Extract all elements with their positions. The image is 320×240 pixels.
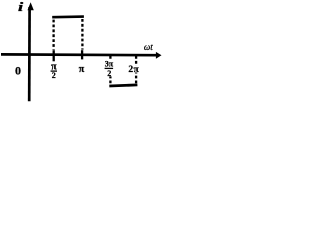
- y-axis (vertical axis line): [28, 7, 31, 101]
- svg-text:2π: 2π: [128, 65, 139, 75]
- svg-text:2: 2: [52, 71, 56, 80]
- x-axis arrowhead: [156, 52, 162, 59]
- pulse 2 right dashed line at 2pi: [135, 56, 137, 84]
- svg-text:2: 2: [107, 69, 111, 78]
- pulse 1 right dashed line at pi: [81, 19, 83, 50]
- svg-text:π: π: [79, 64, 85, 75]
- white mask behind 2pi label: [129, 66, 140, 73]
- x-axis (horizontal axis line): [1, 53, 157, 56]
- label 3pi/2 : fraction bar: [105, 67, 114, 69]
- pulse 2 left dashed line at 3pi/2: [109, 56, 111, 85]
- label pi/2 : fraction bar: [51, 70, 57, 72]
- tick at pi/2: [53, 50, 55, 61]
- pulse 1 top line (from pi/2 to pi): [52, 15, 84, 18]
- svg-text:3π: 3π: [105, 60, 114, 69]
- svg-text:i: i: [18, 0, 24, 14]
- svg-text:ωt: ωt: [144, 42, 153, 52]
- svg-text:0: 0: [15, 63, 21, 77]
- background: [0, 0, 163, 104]
- tick at pi: [81, 50, 83, 59]
- y-axis arrowhead: [28, 2, 34, 10]
- pulse 1 left dashed line at pi/2: [52, 20, 54, 50]
- pulse 2 bottom line (from 3pi/2 to 2pi, below axis): [109, 85, 137, 86]
- white mask behind 3pi/2 label: [104, 60, 114, 77]
